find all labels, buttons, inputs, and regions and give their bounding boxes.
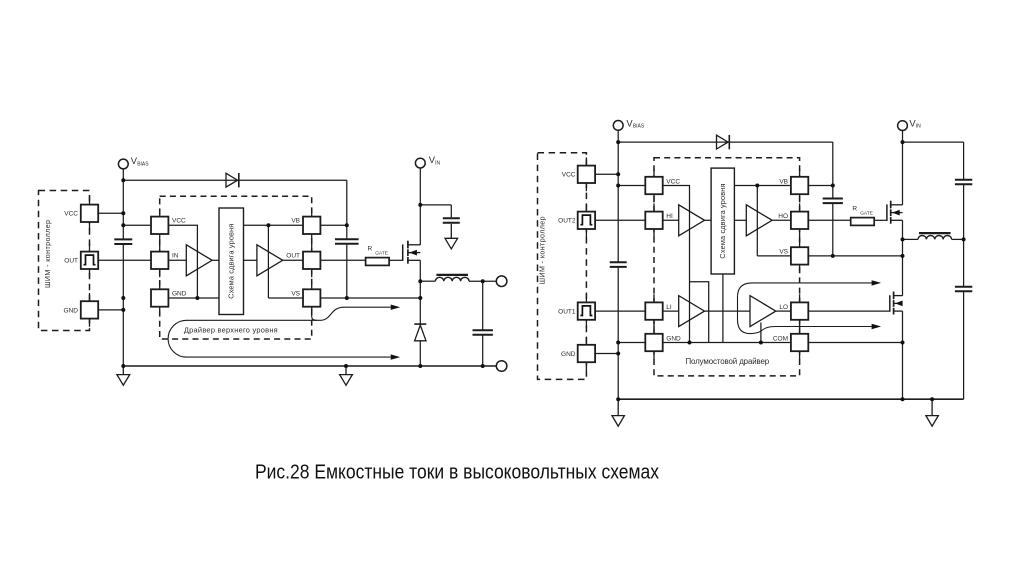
wire PWM GND to ground column (right)	[595, 353, 618, 355]
wire diode D2 to bottom rail	[419, 341, 421, 366]
junction inductor / output cap	[481, 279, 485, 283]
label VCC (PWM right)	[562, 172, 576, 179]
junction internal VCC rail / GND row	[688, 341, 692, 345]
svg-text:BIAS: BIAS	[633, 124, 645, 130]
terminal V_IN	[415, 158, 425, 168]
junction V_BIAS / PWM VCC	[121, 211, 125, 215]
svg-text:VS: VS	[779, 249, 788, 256]
svg-text:Полумостовой драйвер: Полумостовой драйвер	[686, 357, 770, 366]
junction switch node (right)	[901, 237, 905, 241]
svg-text:GATE: GATE	[375, 250, 388, 256]
wire Q2 source to switch node	[902, 220, 904, 295]
wire MOSFET source to switch node	[419, 260, 421, 281]
wire switch node to inductor	[420, 280, 435, 282]
wire LO pin to MOSFET gate (low)	[808, 310, 890, 312]
wire driver VCC to internal rail	[168, 225, 197, 298]
wire HO pin to R2	[808, 219, 851, 221]
wire ground vertical below C1	[122, 244, 124, 366]
svg-text:IN: IN	[435, 160, 440, 166]
capacitor C7 (bus top)	[955, 180, 972, 185]
wire level shifter to buffer A4	[734, 219, 746, 221]
MOSFET Q1	[403, 241, 421, 264]
resistor R_GATE (right)	[851, 218, 875, 226]
wire LI to buffer A5	[663, 310, 679, 312]
junction mid-rail ground	[344, 364, 348, 368]
wire VB-VS internal rail (right)	[756, 186, 758, 256]
pin IN (driver)	[151, 243, 168, 277]
svg-text:OUT2: OUT2	[558, 218, 576, 225]
svg-text:VCC: VCC	[172, 218, 186, 225]
current path arrow (bottom, return loop)	[168, 320, 400, 360]
junction V_IN branch	[418, 203, 422, 207]
PWM controller dashed box (left)	[39, 191, 90, 331]
wire V_IN branch to bus cap	[903, 141, 964, 143]
junction ground col / driver GND (right)	[616, 341, 620, 345]
junction ground col / bottom rail	[121, 364, 125, 368]
junction switch column / bottom rail	[901, 397, 905, 401]
capacitor C8 (output right)	[955, 287, 972, 292]
wire buffer A2 to OUT pin	[283, 259, 303, 261]
pin VB (driver)	[303, 208, 320, 242]
junction ground col / driver GND	[121, 296, 125, 300]
MOSFET Q3 (low side)	[890, 292, 903, 315]
pin OUT (driver)	[303, 243, 320, 277]
inductor L1	[435, 275, 469, 281]
terminal V_BIAS (right)	[613, 121, 623, 131]
wire V_IN branch to decoupling	[420, 204, 451, 206]
wire VS row to switch column	[320, 297, 420, 299]
wire buffer A5 to buffer A6	[705, 310, 751, 312]
label GND (PWM pin)	[64, 307, 79, 314]
svg-text:LI: LI	[666, 304, 672, 311]
pin OUT1 (PWM)	[578, 294, 595, 328]
svg-text:GND: GND	[172, 290, 187, 297]
label OUT2	[558, 218, 576, 225]
label GND (PWM right)	[561, 351, 576, 358]
pin OUT (PWM)	[81, 243, 98, 277]
label VCC (driver right)	[666, 178, 680, 185]
svg-text:LO: LO	[779, 304, 788, 311]
junction ground right / bottom rail	[930, 397, 934, 401]
ground symbol (left rail)	[117, 366, 130, 385]
svg-text:IN: IN	[172, 253, 179, 260]
svg-text:BIAS: BIAS	[137, 161, 149, 167]
label PWM controller right (vertical)	[538, 216, 546, 284]
wire internal rail to VS pin	[268, 297, 303, 299]
wire PWM OUT2 to HI	[595, 219, 645, 221]
pin VCC (driver right)	[645, 169, 662, 203]
label VCC (driver pin)	[172, 218, 186, 225]
svg-text:GATE: GATE	[860, 210, 873, 216]
capacitor C1 (PWM decoupling)	[114, 239, 132, 244]
wire decoupling cap top lead	[450, 205, 452, 217]
junction V_BIAS top rail (right)	[616, 140, 620, 144]
wire internal rail jog	[690, 282, 709, 343]
high-side driver U1 dashed box	[160, 196, 312, 339]
label V_BIAS (right)	[626, 117, 644, 129]
PWM controller dashed box (right)	[538, 153, 587, 380]
bootstrap capacitor C2	[335, 239, 359, 244]
pin LI	[645, 294, 662, 328]
ground symbol at C3	[445, 224, 458, 249]
current path arrow (high-side loop)	[738, 280, 882, 333]
wire bus column top	[963, 142, 965, 179]
wire PWM VCC pin to V_BIAS (right)	[595, 173, 618, 175]
svg-text:COM: COM	[773, 335, 788, 342]
junction bootstrap / VB (right)	[831, 184, 835, 188]
wire VB row	[244, 224, 304, 226]
label HI	[666, 213, 673, 220]
svg-text:VB: VB	[291, 218, 300, 225]
svg-text:GND: GND	[64, 307, 79, 314]
svg-text:Рис.28 Емкостные токи в высоко: Рис.28 Емкостные токи в высоковольтных с…	[255, 461, 660, 484]
wire driver GND row	[168, 297, 219, 299]
wire V_IN vertical	[419, 168, 421, 245]
junction VB rail	[266, 223, 270, 227]
wire VB pin to bootstrap (right)	[808, 185, 833, 187]
svg-text:R: R	[368, 245, 373, 252]
ground symbol (mid rail)	[340, 366, 353, 385]
wire VB row (right)	[734, 185, 791, 187]
wire bootstrap top	[346, 180, 348, 238]
capacitor C4 (output)	[473, 330, 493, 335]
junction buffer A6 / GND row	[759, 341, 763, 345]
terminal V_IN (right)	[898, 121, 908, 131]
wire V_IN vertical (right)	[902, 131, 904, 205]
pin VCC (PWM)	[81, 196, 98, 230]
freewheeling diode D2	[414, 324, 426, 341]
junction V_BIAS / PWM VCC (right)	[616, 172, 620, 176]
wire buffer A3 to level shifter	[705, 219, 712, 221]
svg-text:Схема сдвига уровня: Схема сдвига уровня	[718, 184, 727, 259]
junction ground col / bottom rail (right)	[616, 397, 620, 401]
wire buffer A6 to LO pin	[776, 310, 791, 312]
pin GND (PWM right)	[578, 337, 595, 371]
pin GND (driver)	[151, 281, 168, 315]
pin HI	[645, 203, 662, 237]
resistor R_GATE	[366, 258, 390, 266]
svg-text:ШИМ - контроллер: ШИМ - контроллер	[44, 220, 52, 288]
bootstrap diode D1	[226, 173, 239, 187]
label GND (driver pin)	[172, 290, 187, 297]
label VS (right)	[779, 249, 788, 256]
wire bottom rail	[123, 365, 496, 367]
bootstrap diode D3	[717, 135, 730, 149]
wire switch node to inductor (right)	[903, 238, 919, 240]
junction VS / switch column (right)	[901, 254, 905, 258]
wire PWM VCC pin to V_BIAS	[98, 212, 123, 214]
junction internal VCC-GND rail	[195, 296, 199, 300]
wire inductor to output	[469, 280, 496, 282]
wire R1 to MOSFET gate	[389, 259, 403, 261]
svg-text:VCC: VCC	[666, 178, 680, 185]
output buffer A6 (LO)	[750, 296, 776, 327]
wire PWM OUT to driver IN	[98, 259, 151, 261]
pin VB (right)	[791, 169, 808, 203]
pin COM	[791, 326, 808, 360]
label half-bridge driver caption	[686, 357, 770, 366]
label V_BIAS	[131, 155, 149, 167]
wire IN to buffer A1	[168, 259, 186, 261]
label PWM controller (vertical)	[44, 220, 52, 288]
junction bus column / inductor	[962, 237, 966, 241]
wire bootstrap bottom	[346, 245, 348, 298]
svg-text:ШИМ - контроллер: ШИМ - контроллер	[538, 216, 546, 284]
wire bootstrap top (right)	[832, 142, 834, 198]
junction V_BIAS / driver VCC	[121, 223, 125, 227]
junction ground col / PWM GND	[121, 308, 125, 312]
capacitor C5 (PWM decoupling right)	[610, 262, 627, 267]
wire VS pin to switch column	[808, 255, 902, 257]
label R_GATE (right)	[852, 205, 873, 216]
wire driver VCC internal rail	[663, 186, 690, 343]
label OUT (PWM pin)	[64, 258, 78, 265]
junction V_BIAS / top rail	[121, 178, 125, 182]
MOSFET Q2 (high side)	[887, 201, 903, 224]
svg-text:OUT: OUT	[286, 253, 300, 260]
wire Q3 source to bottom rail	[902, 311, 904, 399]
label COM	[773, 335, 788, 342]
junction output cap / bottom rail	[481, 364, 485, 368]
junction bootstrap / VS	[345, 296, 349, 300]
svg-text:GND: GND	[561, 351, 576, 358]
wire COM pin to switch column	[808, 342, 902, 344]
ground symbol (right rail right)	[926, 399, 938, 426]
wire V_BIAS to driver VCC (right)	[618, 185, 645, 187]
wire HI to buffer A3	[663, 219, 679, 221]
svg-text:IN: IN	[916, 124, 921, 130]
wire output node down to C4	[482, 281, 484, 329]
wire PWM OUT1 to LI	[595, 310, 645, 312]
output buffer A2	[257, 245, 283, 276]
level shifter block (left)	[219, 208, 244, 315]
input buffer A5 (LI)	[679, 296, 705, 327]
wire V_BIAS vertical (right top)	[617, 130, 619, 261]
svg-text:OUT1: OUT1	[558, 309, 576, 316]
junction VB rail (right)	[755, 184, 759, 188]
wire OUT pin to R1	[320, 259, 365, 261]
inductor L2	[918, 233, 952, 239]
label VS (driver pin)	[291, 290, 300, 297]
input buffer A1	[186, 245, 212, 276]
terminal output +	[496, 276, 507, 287]
figure caption	[255, 461, 660, 484]
label OUT (driver pin)	[286, 253, 300, 260]
wire C4 to bottom rail	[482, 335, 484, 366]
junction V_BIAS / driver VCC (right)	[616, 184, 620, 188]
junction VS / switch column	[418, 296, 422, 300]
wire VB pin to bootstrap cap	[320, 224, 347, 226]
capacitor C3 (V_IN decoupling)	[443, 218, 460, 223]
label IN (driver pin)	[172, 253, 179, 260]
output buffer A4 (HO)	[746, 205, 772, 236]
wire bottom rail (right)	[618, 398, 963, 400]
label V_IN (right)	[909, 117, 921, 129]
label LO	[779, 304, 788, 311]
pin GND (driver right)	[645, 326, 662, 360]
wire ground column to driver GND	[618, 342, 645, 344]
pin LO	[791, 294, 808, 328]
label V_IN	[429, 154, 441, 166]
pin VCC (PWM right)	[578, 157, 595, 191]
svg-text:Драйвер верхнего уровня: Драйвер верхнего уровня	[184, 325, 278, 334]
svg-text:Схема сдвига уровня: Схема сдвига уровня	[226, 224, 235, 299]
input buffer A3 (HI)	[679, 205, 705, 236]
wire driver GND to COM	[663, 342, 791, 344]
wire V_BIAS vertical (top)	[122, 169, 124, 239]
junction switch node	[418, 279, 422, 283]
svg-text:VB: VB	[779, 178, 788, 185]
wire buffer A1 to level shifter	[212, 259, 219, 261]
wire inductor to bus column	[952, 238, 964, 240]
wire level shifter to buffer A2	[244, 259, 257, 261]
label OUT1	[558, 309, 576, 316]
wire VB-VS internal rail	[267, 225, 269, 298]
bootstrap capacitor C6	[823, 199, 843, 204]
junction diode / bottom rail	[418, 364, 422, 368]
junction V_IN branch (right)	[901, 140, 905, 144]
wire V_BIAS to driver VCC	[123, 224, 151, 226]
svg-text:R: R	[852, 205, 857, 212]
pin VS (right)	[791, 239, 808, 273]
pin OUT2 (PWM)	[578, 203, 595, 237]
current path arrow (top, VS to switch node)	[312, 305, 401, 321]
label HO	[778, 213, 788, 220]
wire buffer A6 ground lead	[760, 323, 762, 343]
junction ground col / PWM GND (right)	[616, 352, 620, 356]
ground symbol (right rail left)	[612, 399, 624, 426]
terminal V_BIAS	[118, 159, 128, 169]
wire ground vertical below C5	[617, 267, 619, 399]
label VB (right)	[779, 178, 788, 185]
svg-text:OUT: OUT	[64, 258, 78, 265]
junction bootstrap / VS (right)	[831, 254, 835, 258]
level shifter block (right)	[711, 168, 734, 274]
wire bus column bottom	[963, 292, 965, 399]
label R_GATE	[368, 245, 389, 256]
wire bootstrap bottom (right)	[832, 203, 834, 256]
label GND (driver right)	[666, 335, 681, 342]
svg-text:VCC: VCC	[64, 211, 78, 218]
half-bridge driver U2 dashed box	[654, 158, 800, 376]
wire internal rail to VS pin (right)	[757, 255, 791, 257]
pin GND (PWM)	[81, 293, 98, 327]
wire PWM GND to ground column	[98, 309, 123, 311]
wire top rail V_BIAS to bootstrap	[123, 179, 346, 181]
svg-text:GND: GND	[666, 335, 681, 342]
wire R2 to MOSFET gate (high)	[874, 219, 887, 221]
svg-text:HI: HI	[666, 213, 673, 220]
pin VS (driver)	[303, 281, 320, 315]
terminal output -	[496, 361, 507, 372]
junction bootstrap / VB	[345, 223, 349, 227]
wire bus column mid	[963, 185, 965, 286]
label high-side driver caption	[184, 325, 278, 334]
wire buffer A4 to HO pin	[772, 219, 791, 221]
junction COM / switch column	[901, 341, 905, 345]
svg-text:VS: VS	[291, 290, 300, 297]
svg-text:VCC: VCC	[562, 172, 576, 179]
label VCC (PWM pin)	[64, 211, 78, 218]
pin VCC (driver)	[151, 208, 168, 242]
pin HO	[791, 203, 808, 237]
label LI	[666, 304, 672, 311]
wire top rail to bootstrap (right)	[618, 141, 833, 143]
label VB (driver pin)	[291, 218, 300, 225]
wire level shifter bottom lead	[722, 274, 724, 343]
wire switch node to diode D2	[419, 281, 421, 324]
svg-text:HO: HO	[778, 213, 788, 220]
